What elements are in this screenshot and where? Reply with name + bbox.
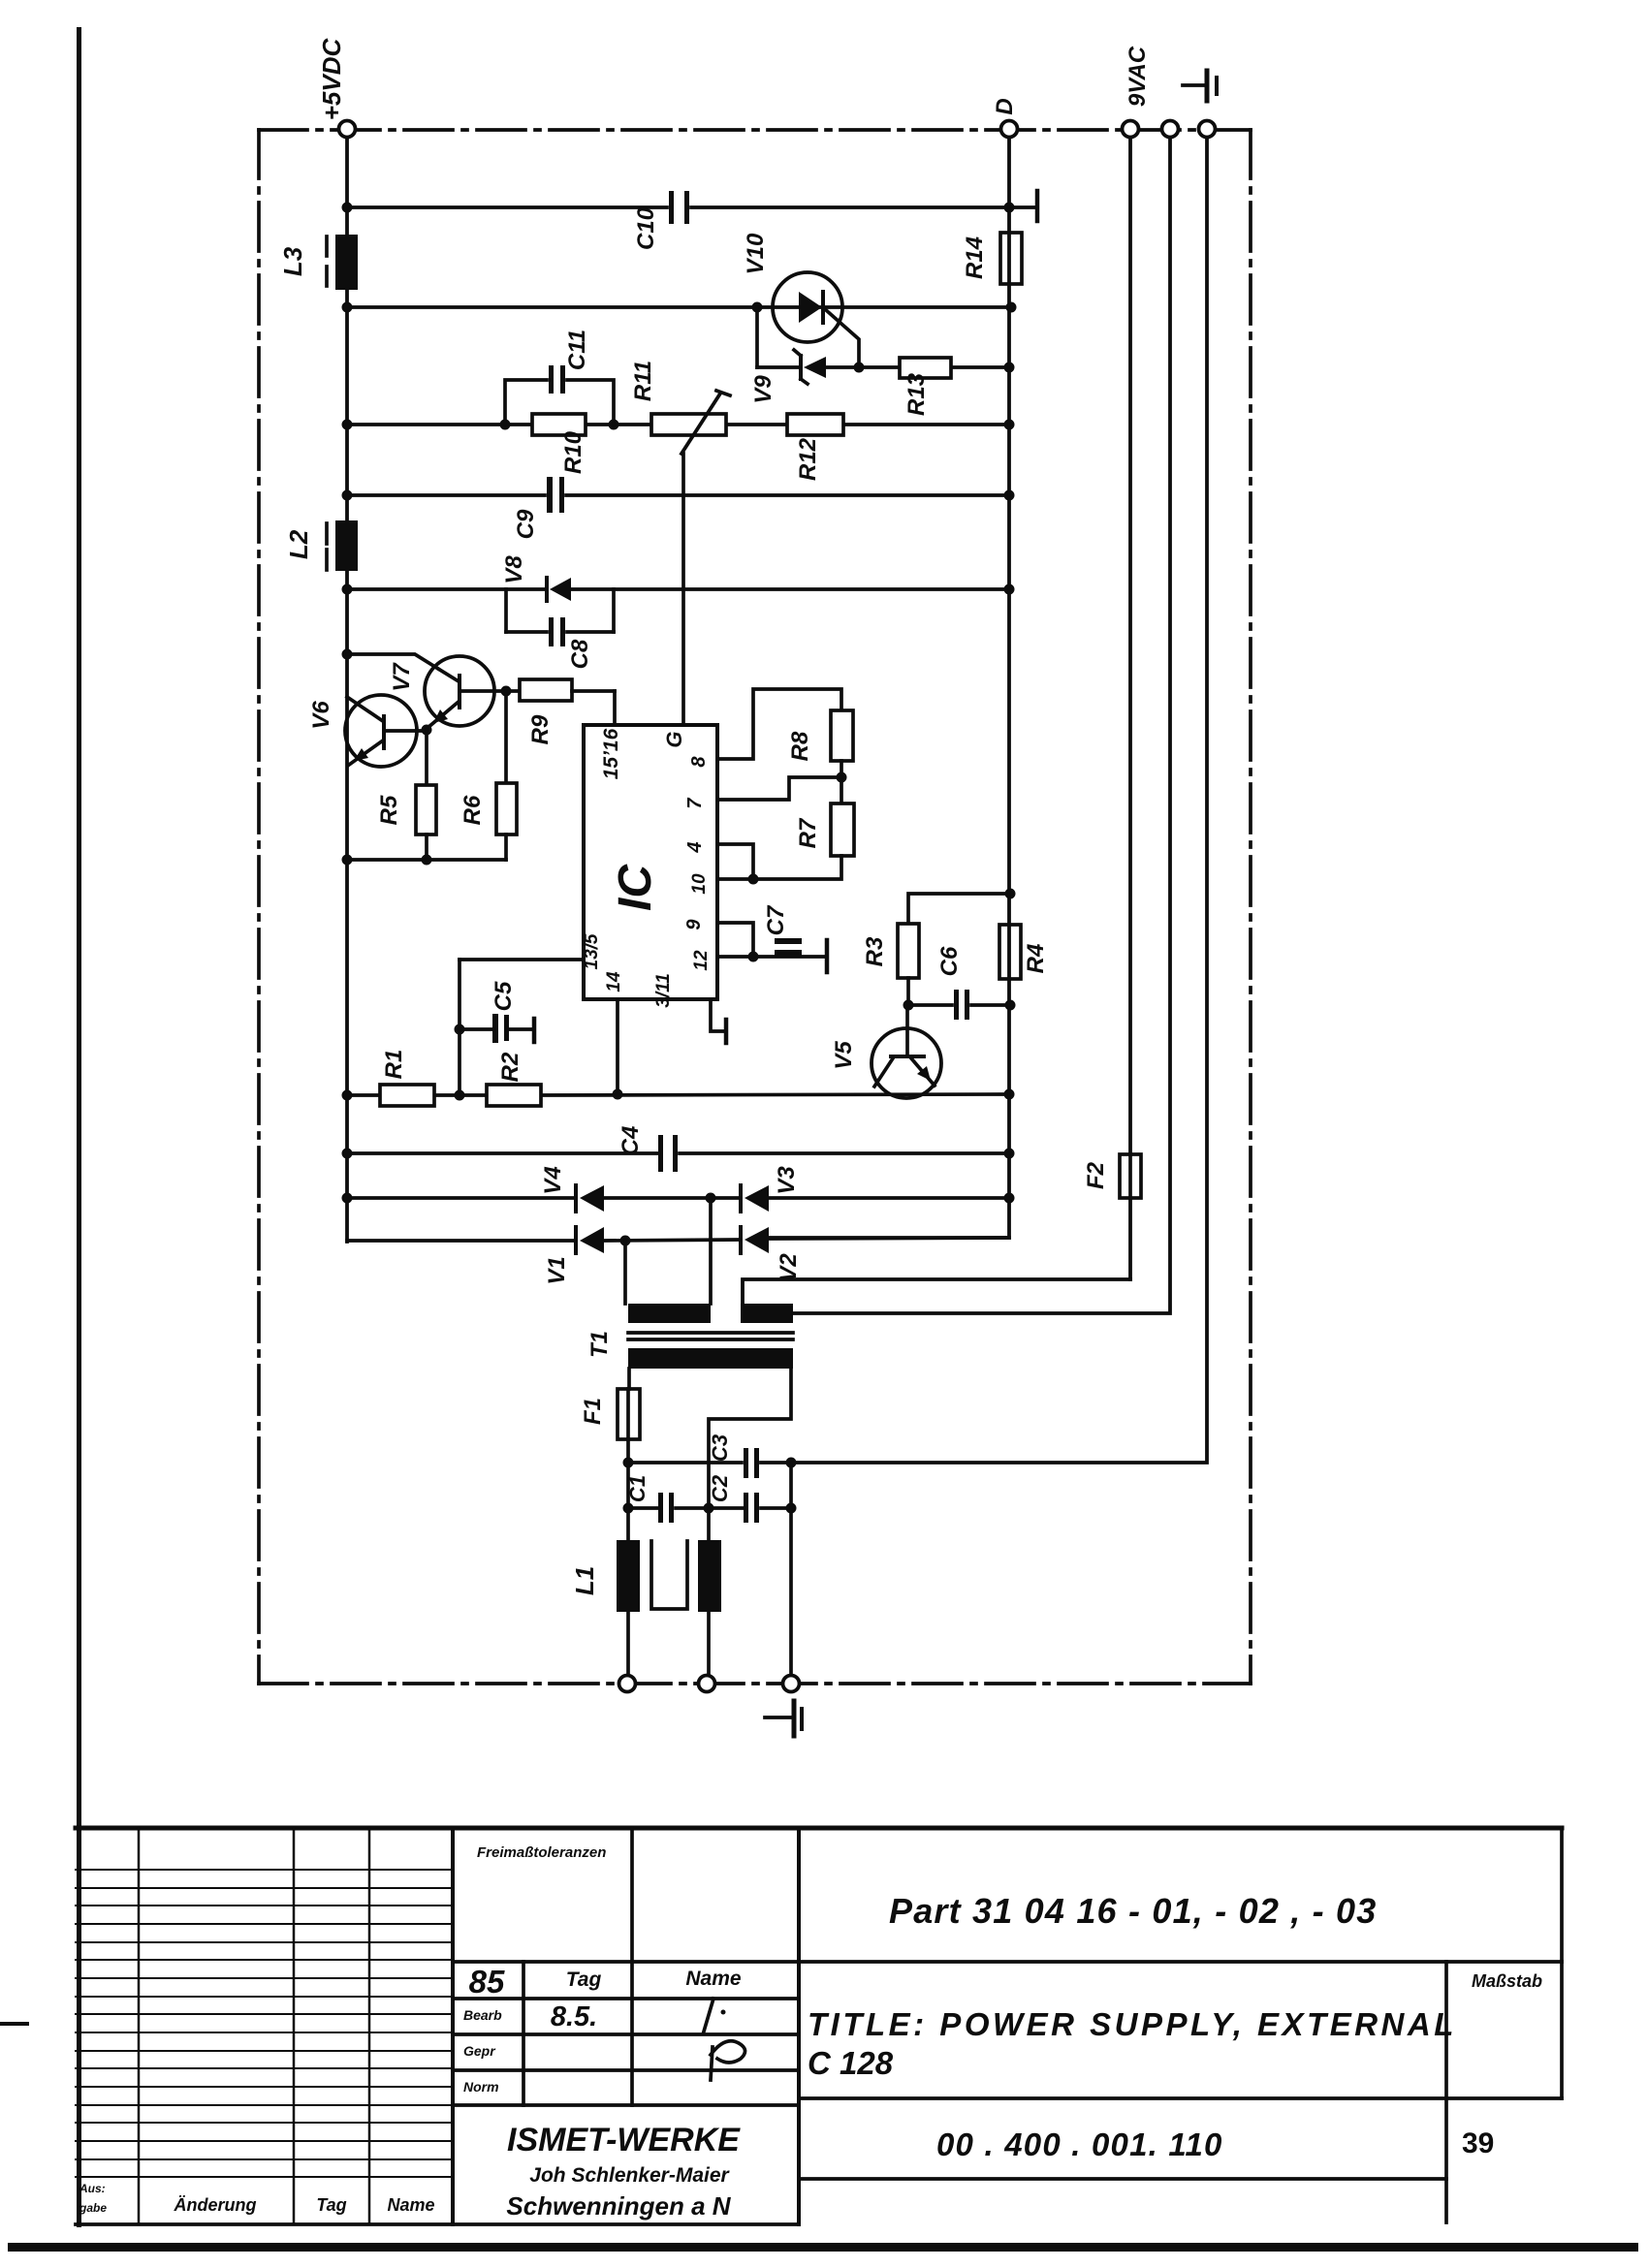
capacitor C1: [625, 1475, 674, 1523]
resistor R1: [380, 1050, 434, 1106]
wire emitter return: [342, 855, 507, 866]
capacitor C7: [763, 904, 827, 972]
svg-text:L3: L3: [278, 246, 307, 276]
wire R8 to R7: [837, 761, 847, 803]
diode V1: [544, 1227, 604, 1285]
wire +5V left bus: [345, 137, 349, 1242]
capacitor C11: [505, 330, 614, 425]
svg-text:F2: F2: [1083, 1161, 1109, 1189]
svg-text:Aus:: Aus:: [79, 2182, 106, 2195]
diode V4: [540, 1166, 604, 1212]
wire C4 line: [342, 1149, 1010, 1159]
svg-text:R8: R8: [787, 731, 813, 761]
svg-text:4: 4: [684, 841, 706, 853]
wire IC pin 12 to C7: [717, 952, 826, 962]
svg-text:TITLE: POWER SUPPLY, EXTERNAL: TITLE: POWER SUPPLY, EXTERNAL: [808, 2006, 1457, 2042]
wire R1 R2 line: [342, 1089, 1015, 1101]
wire middle down to L1: [707, 1509, 711, 1676]
LED V10: [743, 233, 859, 367]
fold mark left margin: [0, 2022, 29, 2026]
wire V8 line: [342, 584, 1015, 595]
transistor V6: [308, 695, 427, 767]
svg-text:F1: F1: [580, 1398, 606, 1425]
wire 9VAC-2 to secondary: [793, 137, 1170, 1313]
wire F1 to C3 node: [623, 1439, 634, 1468]
svg-text:Name: Name: [685, 1968, 742, 1990]
capacitor C6: [936, 946, 969, 1020]
earth ground bottom: [765, 1701, 802, 1736]
signature Bearb: [704, 1999, 726, 2032]
resistor R9: [506, 679, 615, 744]
wire V1 V2 line: [347, 1236, 1009, 1246]
svg-text:R9: R9: [527, 714, 554, 744]
svg-text:R4: R4: [1023, 944, 1049, 974]
wire right down to terminal: [789, 1463, 793, 1676]
svg-text:V4: V4: [540, 1166, 566, 1194]
fuse F1: [580, 1389, 640, 1439]
svg-text:39: 39: [1462, 2127, 1494, 2159]
wire primary left to F1: [627, 1369, 631, 1389]
svg-text:R11: R11: [630, 361, 656, 401]
resistor R3: [862, 924, 919, 978]
wire V3 junction to transformer: [709, 1198, 713, 1304]
svg-text:IC: IC: [610, 864, 661, 911]
resistor R7: [795, 803, 854, 856]
svg-text:C7: C7: [763, 904, 789, 935]
resistor R13: [900, 358, 951, 416]
svg-text:L1: L1: [570, 1566, 599, 1595]
resistor R4: [999, 925, 1049, 979]
diode V8: [501, 555, 571, 601]
earth ground top right: [1183, 71, 1217, 101]
svg-text:Bearb: Bearb: [463, 2007, 502, 2023]
enclosure dash-dot border: [259, 130, 1251, 1684]
transistor V7: [342, 649, 506, 729]
svg-text:Tag: Tag: [316, 2195, 346, 2215]
wire C1 C2 line: [623, 1503, 797, 1514]
svg-text:7: 7: [684, 798, 706, 809]
svg-text:G: G: [662, 731, 686, 747]
svg-text:10: 10: [689, 873, 710, 895]
capacitor C4: [618, 1126, 678, 1172]
wire IC pin 7: [717, 777, 841, 800]
label +5VDC terminal: [317, 38, 346, 121]
svg-text:C6: C6: [936, 946, 963, 976]
svg-text:Maßstab: Maßstab: [1472, 1971, 1542, 1991]
svg-text:9: 9: [683, 919, 705, 930]
resistor R5: [376, 725, 436, 861]
transistor V5: [831, 1005, 941, 1098]
svg-text:R1: R1: [381, 1050, 407, 1080]
resistor R14: [962, 233, 1022, 284]
capacitor C5: [455, 981, 535, 1043]
svg-text:R2: R2: [497, 1052, 523, 1082]
wire primary right jog: [709, 1369, 791, 1509]
svg-text:C4: C4: [618, 1126, 644, 1156]
wire V4 V3 line: [342, 1193, 1010, 1204]
inductor L3: [278, 235, 358, 290]
svg-text:Tag: Tag: [566, 1969, 602, 1991]
capacitor C10: [633, 191, 689, 250]
wire R7 to pin 10 line: [717, 856, 841, 885]
wire IC pin 8 to R8: [717, 689, 841, 759]
svg-text:V9: V9: [750, 375, 776, 404]
svg-text:C 128: C 128: [808, 2045, 894, 2081]
wire D terminal bus: [769, 137, 1015, 1238]
label D terminal: [992, 98, 1018, 114]
wire 9VAC-1 to F2 to secondary: [743, 137, 1130, 1304]
svg-text:Norm: Norm: [463, 2079, 499, 2095]
page left border line: [77, 27, 81, 2227]
transformer T1: [586, 1304, 793, 1369]
svg-text:+5VDC: +5VDC: [317, 38, 346, 121]
svg-text:8: 8: [688, 756, 710, 768]
svg-text:R7: R7: [795, 817, 821, 848]
label 9VAC terminals: [1125, 46, 1151, 107]
diode V2: [741, 1227, 802, 1282]
resistor R6: [460, 686, 517, 861]
zener diode V9: [750, 350, 826, 404]
svg-text:Part 31 04 16 - 01, - 02 ,: Part 31 04 16 - 01, - 02 , - 03: [889, 1891, 1377, 1931]
svg-text:C8: C8: [567, 639, 593, 669]
wire C9 line: [342, 490, 1015, 501]
svg-text:15’16: 15’16: [600, 728, 622, 779]
svg-text:C2: C2: [708, 1474, 732, 1502]
svg-text:R5: R5: [376, 795, 402, 825]
svg-text:Name: Name: [387, 2195, 434, 2215]
inductor L1: [570, 1540, 721, 1612]
svg-text:00 . 400 . 001. 110: 00 . 400 . 001. 110: [936, 2126, 1223, 2162]
potentiometer R11: [630, 361, 730, 725]
capacitor C9: [513, 477, 564, 539]
svg-text:T1: T1: [586, 1331, 613, 1358]
svg-text:3/11: 3/11: [653, 973, 674, 1008]
resistor R8: [787, 710, 853, 761]
terminal D: [1001, 121, 1018, 138]
svg-text:R14: R14: [962, 236, 988, 279]
svg-text:85: 85: [469, 1964, 505, 2000]
svg-text:R3: R3: [862, 936, 888, 966]
svg-text:Gepr: Gepr: [463, 2043, 496, 2059]
wire V9 R13 line: [757, 307, 1015, 373]
diode V3: [741, 1166, 800, 1212]
inductor L2: [284, 520, 358, 571]
title block frame: [76, 1828, 1562, 2224]
wire IC pin 14: [616, 999, 619, 1095]
svg-text:ISMET-WERKE: ISMET-WERKE: [507, 2122, 741, 2158]
capacitor C3: [628, 1434, 797, 1478]
svg-text:Änderung: Änderung: [174, 2195, 257, 2215]
resistor R12: [787, 414, 843, 481]
terminal mains earth: [783, 1676, 800, 1692]
wire V1 junction to transformer: [623, 1241, 627, 1304]
svg-text:R13: R13: [903, 372, 930, 416]
svg-text:R12: R12: [795, 437, 821, 481]
resistor R2: [487, 1052, 541, 1106]
svg-text:V1: V1: [544, 1256, 570, 1284]
wire IC pin 9: [717, 923, 753, 957]
wire C3 node down to L1: [626, 1463, 630, 1676]
svg-text:V8: V8: [501, 555, 527, 584]
svg-text:13/5: 13/5: [582, 933, 602, 969]
svg-text:Schwenningen a N: Schwenningen a N: [506, 2191, 731, 2221]
svg-text:L2: L2: [284, 529, 313, 559]
wire IC pin 4: [717, 844, 753, 879]
svg-text:Joh Schlenker-Maier: Joh Schlenker-Maier: [529, 2164, 730, 2187]
wire +5V to C10 line: [342, 191, 1038, 221]
svg-text:C9: C9: [513, 509, 539, 539]
wire ground terminal to C3 line: [761, 137, 1207, 1463]
wire IC pin 13/5: [460, 960, 584, 1095]
svg-text:Freimaßtoleranzen: Freimaßtoleranzen: [477, 1844, 606, 1861]
page bottom border line: [8, 2243, 1638, 2252]
resistor R10: [532, 414, 586, 474]
terminal 9VAC-1: [1123, 121, 1139, 138]
svg-text:V5: V5: [831, 1041, 857, 1070]
title block texts: [79, 1844, 1542, 2221]
svg-text:gabe: gabe: [79, 2201, 107, 2215]
wire R3 top link: [908, 889, 1016, 925]
svg-text:C5: C5: [491, 981, 517, 1011]
svg-text:D: D: [992, 98, 1018, 114]
svg-text:V6: V6: [308, 701, 334, 730]
svg-text:V3: V3: [774, 1166, 800, 1195]
svg-text:8.5.: 8.5.: [551, 2001, 597, 2032]
fuse F2: [1083, 1154, 1141, 1198]
svg-text:R10: R10: [560, 430, 586, 474]
terminal 9VAC-2: [1162, 121, 1179, 138]
op-amp IC U1: [582, 725, 717, 1008]
svg-text:9VAC: 9VAC: [1125, 46, 1151, 107]
wire C6 line: [903, 978, 1016, 1011]
svg-text:V7: V7: [389, 662, 415, 692]
svg-text:12: 12: [691, 950, 712, 971]
svg-text:C11: C11: [564, 330, 590, 370]
svg-text:14: 14: [604, 971, 624, 992]
terminal +5VDC: [339, 121, 356, 138]
svg-text:R6: R6: [460, 795, 486, 825]
wire R10 R11 R12 line: [342, 420, 1015, 430]
terminal mains N: [699, 1676, 715, 1692]
signature Gepr: [711, 2041, 745, 2080]
svg-text:V10: V10: [743, 233, 769, 274]
wire IC pin 3/11 to ground stub: [711, 999, 726, 1043]
svg-text:C3: C3: [708, 1434, 732, 1462]
terminal ground top: [1199, 121, 1216, 138]
capacitor C2: [708, 1474, 759, 1523]
svg-text:C10: C10: [633, 206, 659, 250]
capacitor C8: [506, 589, 614, 669]
wire L3 to R14 line: [342, 302, 1017, 313]
terminal mains L: [619, 1676, 636, 1692]
